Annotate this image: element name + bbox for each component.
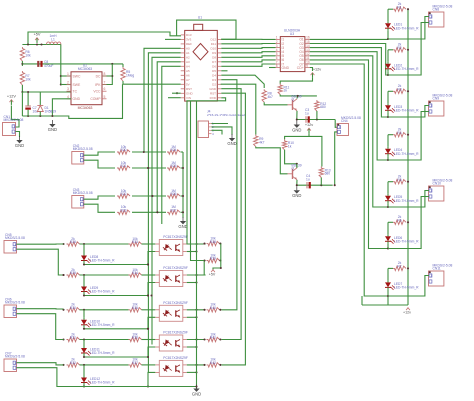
- wire R11 to collector rail: [280, 95, 317, 96]
- resistor opto2 series: [129, 268, 142, 277]
- LED LED2: [385, 62, 419, 72]
- connector CN3: [72, 188, 93, 208]
- wire +5V tap: [213, 268, 221, 270]
- svg-text:D3: D3: [212, 78, 216, 82]
- optocoupler U4 PC817: [155, 235, 188, 256]
- wire res to rail: [219, 260, 221, 262]
- wire CN9 pin2: [388, 112, 429, 161]
- svg-text:10k: 10k: [25, 54, 31, 58]
- capacitor C3: [305, 108, 310, 123]
- junction: [195, 316, 197, 318]
- wire VIN stub: [168, 97, 181, 99]
- wire LED cathode: [387, 156, 389, 160]
- wire to LED anode: [387, 9, 389, 21]
- junction: [83, 385, 85, 387]
- junction: [83, 243, 85, 245]
- resistor R11: [278, 84, 289, 95]
- wire +12V rail right: [407, 9, 409, 305]
- svg-text:3: 3: [67, 87, 69, 91]
- junction: [83, 338, 85, 340]
- svg-text:R4: R4: [397, 131, 401, 135]
- junction: [195, 250, 197, 252]
- wire emitter out: [187, 371, 197, 373]
- junction: [387, 38, 389, 40]
- junction: [407, 134, 409, 136]
- wire collector out: [187, 309, 206, 311]
- ground GND j4: [227, 134, 236, 146]
- wire emitter out: [187, 346, 197, 348]
- svg-text:R29: R29: [70, 271, 76, 275]
- resistor divider bottom row2: [167, 161, 180, 170]
- svg-text:LED-TH-5mm_R: LED-TH-5mm_R: [394, 26, 419, 30]
- svg-text:LED-TH-5mm_R: LED-TH-5mm_R: [90, 259, 115, 263]
- svg-text:+12v: +12v: [313, 68, 321, 72]
- wire GND elbow to opto4: [221, 89, 241, 340]
- wire D5 stub: [221, 70, 227, 72]
- wire U2 GND pin: [52, 99, 71, 116]
- svg-text:A7: A7: [186, 78, 190, 82]
- svg-text:1k: 1k: [288, 144, 292, 148]
- ground GND q1: [292, 121, 301, 133]
- svg-text:A0: A0: [186, 47, 190, 51]
- svg-text:R22: R22: [120, 192, 126, 196]
- svg-text:R27: R27: [170, 209, 176, 213]
- connector CN10: [429, 178, 453, 201]
- wire indicator to rail: [84, 327, 148, 329]
- svg-text:3V3: 3V3: [186, 38, 192, 42]
- ground GND cn1: [15, 136, 24, 148]
- wire opto cathode: [148, 252, 155, 265]
- wire to opto anode: [142, 274, 156, 276]
- svg-text:7: 7: [104, 81, 106, 85]
- LED LED11: [81, 346, 115, 356]
- wire O7 to LED7 cathode: [310, 64, 388, 296]
- wire D9 to ULN I4: [221, 52, 275, 53]
- wire to indicator LED: [83, 244, 85, 254]
- junction: [195, 309, 197, 311]
- wire opto cathode: [148, 347, 155, 357]
- svg-text:R37: R37: [132, 361, 138, 365]
- wire to SWE pin: [61, 84, 71, 86]
- wire to opto anode: [142, 339, 156, 341]
- transistor Q2 BD139: [288, 163, 302, 180]
- svg-text:R33: R33: [132, 240, 138, 244]
- wire CN6 pin2: [17, 314, 64, 340]
- wire res to rail: [219, 339, 221, 341]
- svg-text:MKDS/2-5.08: MKDS/2-5.08: [5, 236, 25, 240]
- svg-text:SWC: SWC: [73, 74, 81, 78]
- svg-text:5V: 5V: [186, 83, 190, 87]
- wire 3V3 stub: [165, 38, 181, 40]
- svg-text:CN4: CN4: [341, 119, 348, 123]
- wire R8 to Q1 base: [264, 102, 287, 105]
- wire D10 to ULN I3: [221, 47, 275, 50]
- resistor R1 led: [393, 2, 406, 11]
- svg-text:4: 4: [67, 95, 69, 99]
- svg-text:R7: R7: [397, 265, 401, 269]
- resistor divider bottom row3: [167, 189, 180, 198]
- wire to CN4 pin1: [335, 120, 337, 128]
- wire feedback to TC pin: [22, 91, 71, 93]
- wire CN10 pin2: [388, 197, 429, 249]
- LED LED1: [385, 21, 419, 31]
- connector CN1: [3, 115, 24, 136]
- svg-text:D10: D10: [210, 47, 216, 51]
- resistor opto4 pullup: [207, 332, 220, 341]
- wire R13 bottom: [320, 178, 322, 186]
- svg-text:R21: R21: [120, 164, 126, 168]
- resistor opto2 pullup: [207, 253, 220, 262]
- wire divider to gnd rail: [181, 151, 184, 153]
- wire CN2 pin1: [84, 152, 115, 155]
- svg-text:GND: GND: [178, 224, 187, 229]
- junction: [203, 309, 205, 311]
- junction: [387, 74, 389, 76]
- junction: [60, 83, 62, 85]
- resistor opto5 input: [67, 358, 80, 367]
- junction: [407, 49, 409, 51]
- svg-text:8: 8: [104, 72, 106, 76]
- supply +5V opto: [209, 270, 216, 277]
- connector CN6: [4, 297, 25, 317]
- junction: [62, 364, 64, 366]
- svg-text:1Meg: 1Meg: [126, 74, 134, 78]
- resistor opto4 input: [67, 332, 80, 341]
- svg-text:RST: RST: [186, 87, 192, 91]
- svg-text:R40: R40: [210, 306, 216, 310]
- svg-text:R25: R25: [170, 164, 176, 168]
- wire D8 to ULN I5: [221, 56, 275, 58]
- svg-text:MC34063: MC34063: [78, 67, 92, 71]
- svg-text:10k: 10k: [25, 78, 31, 82]
- wire +5V rail opto: [220, 244, 222, 268]
- wire analog pin fan: [162, 66, 181, 224]
- svg-text:PC817X2NSZ9F: PC817X2NSZ9F: [163, 331, 188, 335]
- resistor opto1 series: [129, 237, 142, 246]
- wire LED cathode: [387, 290, 389, 305]
- wire bottom elbow: [361, 296, 363, 305]
- wire J4 to ground: [212, 127, 233, 135]
- svg-text:A4: A4: [186, 65, 190, 69]
- junction: [62, 243, 64, 245]
- resistor R7 led: [393, 261, 406, 270]
- wire R5 to 5V pin: [123, 81, 181, 84]
- wire DC/IPK feed: [102, 64, 112, 85]
- wire O4 to LED4 cathode: [310, 52, 388, 160]
- LED LED4: [385, 147, 419, 157]
- resistor R9: [254, 135, 265, 147]
- wire LED cathode: [387, 31, 389, 39]
- resistor opto5 series: [129, 358, 142, 367]
- junction: [62, 274, 64, 276]
- junction: [195, 281, 197, 283]
- svg-text:D5: D5: [212, 69, 216, 73]
- svg-text:CN11: CN11: [433, 267, 441, 271]
- junction: [21, 63, 23, 65]
- wire to LED anode: [387, 91, 389, 103]
- svg-text:R39: R39: [210, 257, 216, 261]
- wire J4 pin1 right: [212, 123, 229, 125]
- wire res left lead: [388, 267, 393, 269]
- svg-text:680: 680: [320, 105, 326, 109]
- junction: [203, 338, 205, 340]
- wire to indicator LED: [83, 275, 85, 285]
- svg-text:LED-TH-5mm_R: LED-TH-5mm_R: [394, 199, 419, 203]
- svg-text:LED-TH-5mm_R: LED-TH-5mm_R: [394, 240, 419, 244]
- svg-text:REF: REF: [186, 42, 192, 46]
- wire LED cathode: [387, 71, 389, 75]
- junction: [407, 267, 409, 269]
- svg-text:R26: R26: [170, 192, 176, 196]
- wire Q2 emitter rail: [297, 180, 333, 185]
- wire CN11 pin1: [388, 276, 429, 297]
- wire LED cathode: [387, 113, 389, 117]
- svg-text:LED-TH-5mm_R: LED-TH-5mm_R: [394, 67, 419, 71]
- svg-text:MC34063: MC34063: [78, 106, 93, 110]
- wire +5V top rail to U1 D13 area: [28, 32, 181, 45]
- wire bottom +12V feed: [362, 304, 408, 306]
- resistor R10: [282, 139, 294, 149]
- wire divider mid: [132, 151, 166, 153]
- resistor opto3 input: [67, 303, 80, 312]
- wire to LED anode: [387, 222, 389, 234]
- supply +12v q2: [305, 123, 313, 133]
- svg-text:A5: A5: [186, 69, 190, 73]
- svg-text:RST: RST: [210, 92, 216, 96]
- LED LED5: [385, 194, 419, 204]
- LED LED10: [81, 318, 115, 328]
- wire CN7 pin1: [17, 363, 64, 365]
- svg-text:LED-TH-5mm_R: LED-TH-5mm_R: [394, 286, 419, 290]
- junction: [219, 364, 221, 366]
- svg-text:2: 2: [67, 81, 69, 85]
- resistor divider top row3: [117, 189, 130, 198]
- wire RST elbow to opto5: [221, 93, 245, 365]
- svg-text:MKDS/2-5.08: MKDS/2-5.08: [5, 301, 25, 305]
- junction: [147, 294, 149, 296]
- svg-text:DC: DC: [96, 74, 101, 78]
- svg-text:9: 9: [306, 64, 308, 68]
- svg-text:A2: A2: [186, 56, 190, 60]
- svg-text:R1: R1: [397, 5, 401, 9]
- junction: [407, 90, 409, 92]
- wire divider mid: [132, 211, 166, 213]
- wire analog pin fan: [148, 53, 180, 373]
- svg-text:+12v: +12v: [403, 311, 411, 315]
- optocoupler U6 PC817: [155, 301, 188, 322]
- wire res left lead: [388, 181, 393, 183]
- svg-text:R42: R42: [210, 361, 216, 365]
- wire divider to gnd rail: [181, 167, 184, 169]
- junction: [195, 274, 197, 276]
- svg-text:D9: D9: [212, 51, 216, 55]
- junction: [143, 151, 145, 153]
- resistor opto3 series: [129, 303, 142, 312]
- junction: [147, 328, 149, 330]
- svg-text:1u: 1u: [306, 177, 310, 181]
- wire indicator to rail: [84, 263, 148, 265]
- junction: [203, 364, 205, 366]
- junction: [407, 8, 409, 10]
- svg-text:Q: Q: [292, 98, 295, 102]
- junction: [219, 338, 221, 340]
- svg-text:R6: R6: [397, 219, 401, 223]
- junction: [182, 211, 184, 213]
- wire RXD to opto1: [187, 98, 226, 244]
- svg-text:D4: D4: [212, 74, 216, 78]
- wire to LED anode: [387, 135, 389, 147]
- junction: [147, 263, 149, 265]
- microcontroller U1 Arduino Nano: [181, 16, 222, 102]
- LED LED12: [81, 376, 115, 386]
- wire O1 to LED1 cathode: [310, 38, 388, 40]
- junction: [182, 167, 184, 169]
- junction: [220, 267, 222, 269]
- junction: [83, 263, 85, 265]
- junction: [151, 195, 153, 197]
- junction: [387, 116, 389, 118]
- wire emitter out: [187, 316, 197, 318]
- svg-text:R23: R23: [120, 209, 126, 213]
- connector CN2: [72, 144, 93, 164]
- svg-text:RXD: RXD: [210, 96, 217, 100]
- svg-text:D8: D8: [212, 56, 216, 60]
- svg-text:GND: GND: [292, 128, 301, 133]
- junction: [39, 115, 41, 117]
- junction: [21, 91, 23, 93]
- svg-text:D13: D13: [186, 33, 192, 37]
- wire D4 to R8: [221, 75, 264, 88]
- svg-text:1u: 1u: [305, 112, 309, 116]
- junction: [151, 195, 153, 197]
- svg-text:GND: GND: [282, 66, 290, 70]
- wire to DC pin: [102, 75, 112, 77]
- junction: [203, 259, 205, 261]
- junction: [195, 371, 197, 373]
- junction: [111, 75, 113, 77]
- wire collector out: [187, 364, 206, 366]
- wire collector out: [187, 243, 206, 245]
- svg-text:GND: GND: [15, 143, 24, 148]
- junction: [83, 356, 85, 358]
- wire divider gnd vertical: [182, 152, 184, 218]
- wire res left lead: [388, 90, 393, 92]
- wire emitter gnd rail: [196, 101, 198, 389]
- svg-text:R3: R3: [397, 88, 401, 92]
- junction: [62, 309, 64, 311]
- svg-text:R24: R24: [170, 148, 176, 152]
- wire O2 to LED2 cathode: [310, 44, 388, 76]
- wire CN1 pin2 to ground: [16, 132, 20, 138]
- wire res left lead: [388, 49, 393, 51]
- connector CN7: [4, 351, 25, 371]
- svg-text:R32: R32: [70, 361, 76, 365]
- svg-text:+12v: +12v: [305, 123, 313, 127]
- junction: [147, 167, 149, 169]
- wire opto input: [80, 339, 129, 341]
- wire LED cathode: [387, 244, 389, 249]
- svg-text:D7: D7: [212, 60, 216, 64]
- junction: [387, 206, 389, 208]
- junction: [195, 338, 197, 340]
- wire analog pin fan: [144, 48, 181, 152]
- wire O6 to LED6 cathode: [310, 60, 388, 249]
- junction: [62, 338, 64, 340]
- junction: [203, 243, 205, 245]
- supply +5V: [34, 33, 41, 43]
- resistor divider top row2: [117, 161, 130, 170]
- svg-text:D6: D6: [212, 65, 216, 69]
- svg-text:R36: R36: [132, 336, 138, 340]
- resistor R4 led: [393, 128, 406, 137]
- wire Q1 emitter rail: [297, 111, 335, 120]
- junction: [219, 309, 221, 311]
- wire O3 to LED3 cathode: [310, 48, 388, 117]
- capacitor C8: [37, 60, 53, 68]
- svg-text:VIN: VIN: [186, 96, 191, 100]
- resistor R12: [315, 100, 327, 111]
- svg-text:R2: R2: [397, 46, 401, 50]
- junction: [195, 364, 197, 366]
- wire to indicator LED: [83, 365, 85, 376]
- resistor R5: [121, 67, 135, 81]
- connector CN9: [429, 93, 453, 116]
- resistor opto4 series: [129, 332, 142, 341]
- wire divider mid: [132, 195, 166, 197]
- svg-text:MKDS/2-5.08: MKDS/2-5.08: [73, 147, 93, 151]
- wire opto input: [80, 243, 129, 245]
- svg-text:PC817X2NSZ9F: PC817X2NSZ9F: [163, 356, 188, 360]
- wire CN2 pin2: [84, 160, 115, 168]
- junction: [147, 328, 149, 330]
- wire rail to 5V row: [63, 84, 123, 118]
- junction: [83, 309, 85, 311]
- svg-text:CN10: CN10: [433, 182, 442, 186]
- wire bottom rail to gnd: [148, 386, 197, 388]
- junction: [147, 356, 149, 358]
- wire to SWC pin: [61, 75, 71, 77]
- junction: [62, 274, 64, 276]
- resistor divider top row1: [117, 145, 130, 154]
- inductor L1: [47, 34, 61, 44]
- wire Q2 collector lead: [296, 164, 298, 168]
- svg-text:LED-TH-5mm_R: LED-TH-5mm_R: [394, 109, 419, 113]
- wire opto cathode: [148, 372, 155, 386]
- connector CN8: [429, 4, 453, 27]
- junction: [150, 294, 152, 296]
- wire J4 pin3 stub: [212, 130, 223, 134]
- svg-text:R41: R41: [210, 336, 216, 340]
- resistor opto1 input: [67, 237, 80, 246]
- wire CD+ to +12V: [310, 68, 313, 72]
- svg-text:LED-TH-5mm_R: LED-TH-5mm_R: [90, 323, 115, 327]
- svg-text:4k7: 4k7: [268, 95, 273, 99]
- diode D1: [37, 92, 56, 116]
- junction: [407, 181, 409, 183]
- svg-text:4k7: 4k7: [259, 140, 264, 144]
- wire ULN GND stub: [269, 67, 276, 69]
- wire res left lead: [388, 221, 393, 223]
- svg-text:+5V: +5V: [209, 273, 216, 277]
- wire ground rail: [22, 115, 63, 117]
- junction: [83, 364, 85, 366]
- LED LED9: [81, 285, 115, 295]
- connector CN4: [337, 116, 361, 136]
- junction: [219, 259, 221, 261]
- junction: [297, 95, 299, 97]
- resistor divider bottom row1: [167, 145, 180, 154]
- svg-text:R34: R34: [132, 271, 138, 275]
